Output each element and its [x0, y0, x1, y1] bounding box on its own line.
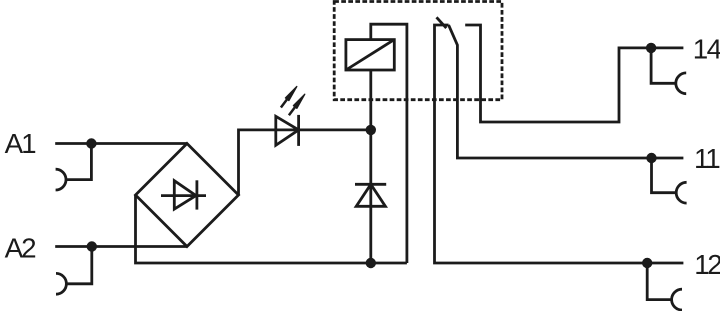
contact actuator tick — [437, 17, 447, 28]
svg-text:11: 11 — [694, 143, 720, 174]
LED light arrow 2 — [289, 94, 305, 115]
contact NC fixed arm and wire to terminal 12 — [435, 25, 684, 263]
junction node 11 — [646, 153, 656, 163]
wire bridge left vertex to bottom rail — [136, 195, 407, 263]
junction node A1 — [86, 138, 96, 148]
bridge rectifier diamond — [136, 144, 239, 247]
contact blade and wire to terminal 11 — [449, 25, 684, 158]
svg-text:A1: A1 — [5, 128, 37, 159]
relay coil K1 — [346, 40, 394, 70]
clamp terminal A1 — [56, 144, 92, 191]
clamp terminal 14 — [651, 48, 686, 94]
svg-text:A2: A2 — [5, 233, 37, 264]
clamp terminal 11 — [652, 158, 687, 203]
LED D2 — [276, 115, 299, 146]
junction node bottom rail — [366, 258, 376, 268]
svg-text:14: 14 — [693, 34, 720, 65]
junction node A2 — [87, 241, 97, 251]
svg-text:12: 12 — [694, 249, 720, 280]
relay boundary dashed box — [334, 2, 502, 100]
wire bridge right vertex to LED node — [239, 130, 371, 195]
wire A2 to bridge bottom vertex — [55, 245, 187, 248]
bridge diode D1 — [161, 180, 206, 209]
junction node 14 — [646, 43, 656, 53]
LED light arrow 1 — [281, 87, 297, 108]
contact NO fixed arm and wire to terminal 14 — [465, 25, 683, 122]
junction node LED / coil — [366, 125, 376, 135]
freewheeling diode D3 — [355, 184, 386, 206]
wire coil top return to bottom rail — [371, 24, 407, 263]
wire coil bottom lead — [369, 70, 372, 130]
clamp terminal 12 — [647, 263, 682, 310]
wire coil node down to bottom rail — [369, 130, 372, 263]
junction node 12 — [642, 258, 652, 268]
clamp terminal A2 — [56, 247, 92, 295]
wire A1 to bridge top vertex — [55, 142, 187, 145]
